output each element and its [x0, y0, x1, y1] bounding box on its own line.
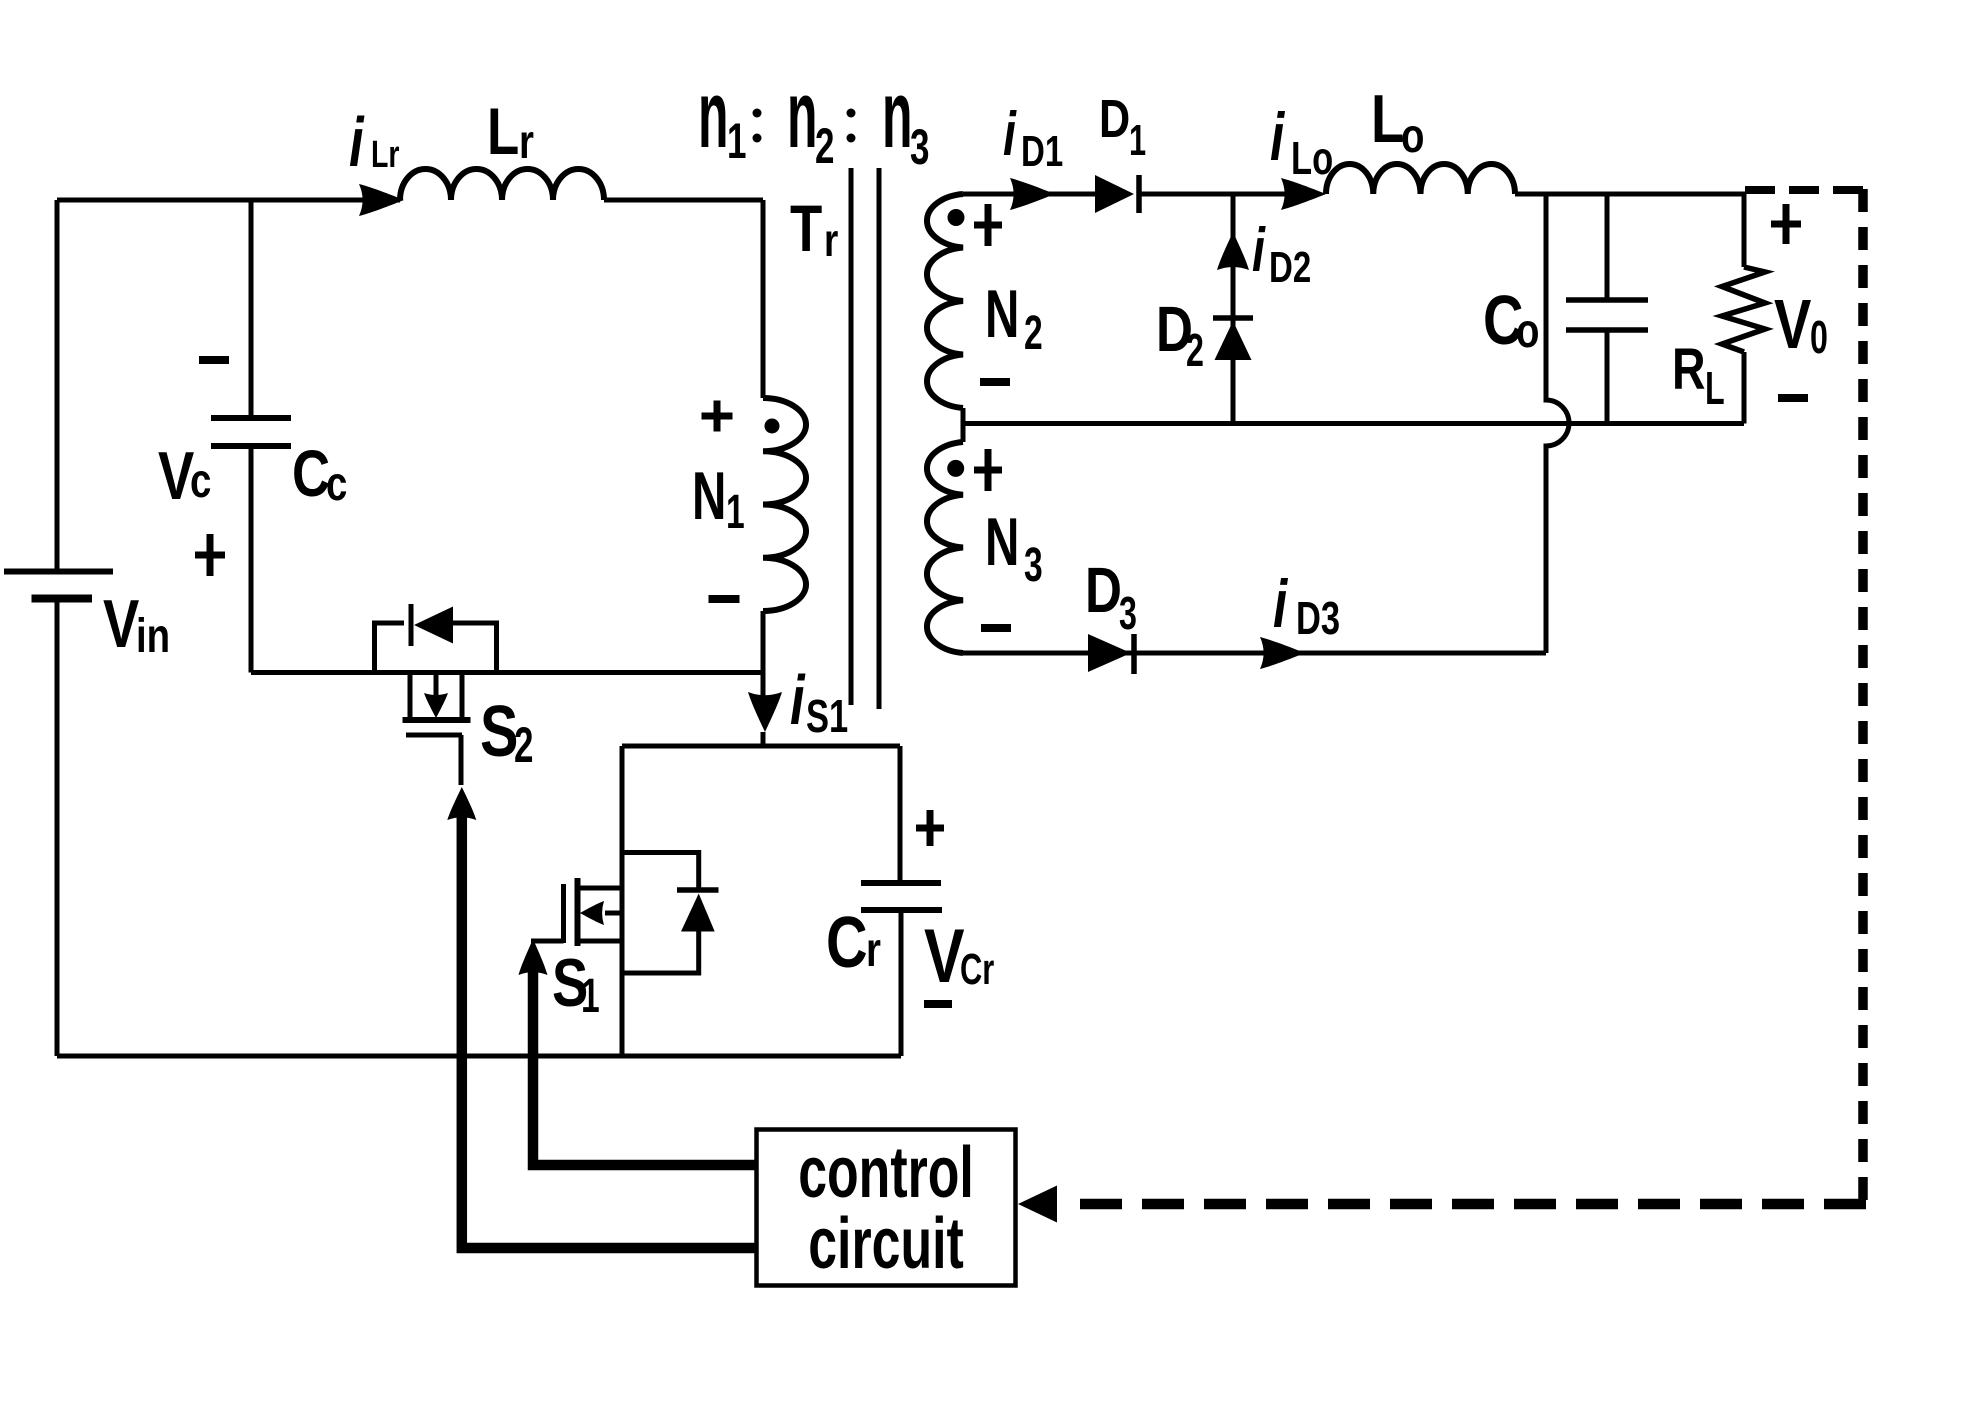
svg-text:1: 1	[581, 968, 600, 1022]
svg-text:3: 3	[910, 120, 929, 176]
svg-text:D: D	[1085, 556, 1122, 627]
svg-text:in: in	[136, 610, 170, 663]
svg-text:i: i	[1252, 214, 1266, 284]
svg-text:c: c	[326, 458, 347, 511]
svg-text:R: R	[1672, 337, 1706, 402]
svg-text:V: V	[103, 586, 139, 662]
svg-text:c: c	[190, 455, 211, 508]
svg-text:S1: S1	[806, 690, 848, 742]
svg-text:N: N	[985, 277, 1019, 352]
svg-text:T: T	[790, 191, 822, 265]
svg-text:D2: D2	[1269, 244, 1311, 293]
svg-text:N: N	[985, 505, 1019, 580]
svg-text:L: L	[487, 94, 519, 168]
svg-text:Lr: Lr	[371, 134, 400, 176]
svg-text:V: V	[1774, 286, 1811, 363]
svg-text:i: i	[349, 104, 365, 182]
svg-text:2: 2	[815, 119, 834, 175]
svg-text:D3: D3	[1296, 592, 1340, 644]
svg-text:C: C	[826, 902, 868, 983]
svg-text:r: r	[519, 116, 534, 169]
svg-text:1: 1	[726, 484, 745, 538]
svg-text:o: o	[1401, 110, 1424, 163]
svg-text:n: n	[698, 62, 728, 169]
svg-text:i: i	[1270, 99, 1285, 175]
svg-text:1: 1	[727, 114, 746, 170]
svg-text:2: 2	[1024, 305, 1043, 359]
svg-text:n: n	[787, 62, 817, 169]
svg-text:D1: D1	[1021, 128, 1063, 177]
svg-text:r: r	[866, 924, 881, 977]
svg-text:0: 0	[1810, 312, 1828, 363]
svg-text:L: L	[1371, 81, 1404, 157]
svg-text:2: 2	[514, 718, 533, 774]
svg-text:Lo: Lo	[1291, 132, 1333, 184]
svg-text:Cr: Cr	[960, 946, 994, 995]
svg-text:S: S	[480, 691, 518, 772]
svg-text:V: V	[158, 438, 194, 514]
svg-text:control: control	[798, 1133, 974, 1213]
svg-text:circuit: circuit	[808, 1204, 964, 1284]
svg-text:r: r	[824, 214, 838, 266]
svg-text:L: L	[1705, 363, 1725, 414]
svg-text:n: n	[882, 62, 912, 169]
svg-text:i: i	[1003, 98, 1017, 168]
svg-text:C: C	[292, 436, 330, 510]
svg-text:1: 1	[1129, 117, 1146, 166]
svg-text:N: N	[692, 459, 726, 534]
svg-text:i: i	[1273, 566, 1288, 642]
svg-text:3: 3	[1119, 588, 1137, 639]
svg-text:V: V	[924, 914, 965, 999]
svg-text:D: D	[1099, 90, 1130, 150]
svg-text:i: i	[790, 662, 806, 740]
svg-text:2: 2	[1186, 325, 1204, 376]
svg-text:3: 3	[1024, 537, 1043, 591]
svg-text:o: o	[1516, 305, 1539, 358]
